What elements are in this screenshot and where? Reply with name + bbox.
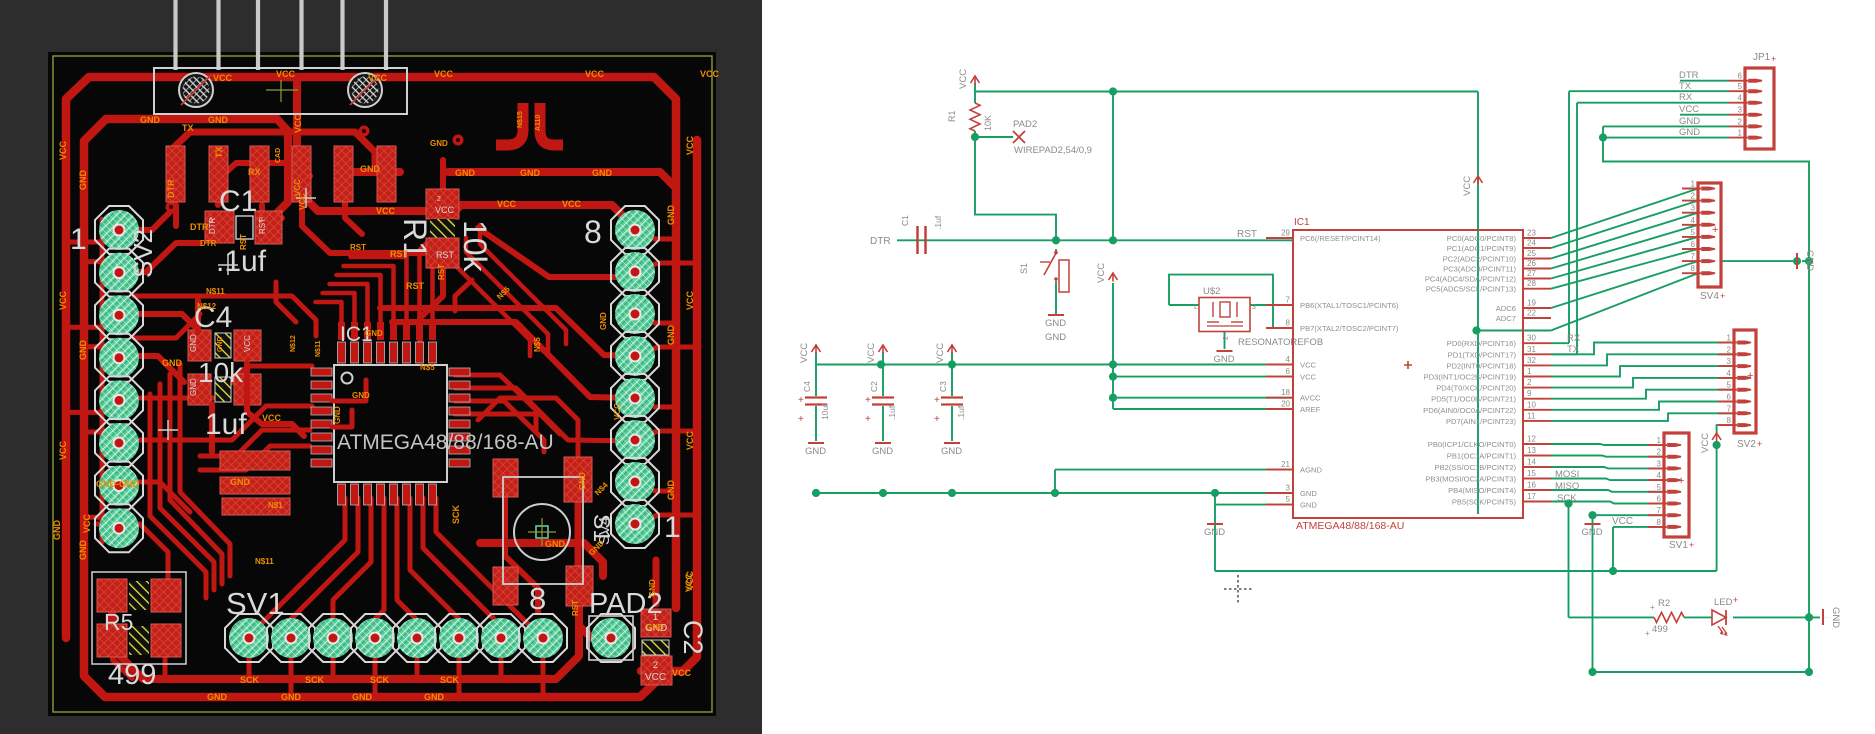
- svg-text:SCK: SCK: [305, 675, 325, 685]
- svg-text:PD1(TXD/PCINT17): PD1(TXD/PCINT17): [1448, 350, 1517, 359]
- svg-text:12: 12: [1527, 435, 1536, 444]
- svg-text:6: 6: [1286, 367, 1291, 376]
- svg-text:4: 4: [1286, 355, 1291, 364]
- svg-text:GND: GND: [1045, 332, 1066, 343]
- svg-text:+: +: [1678, 475, 1684, 487]
- svg-text:DTR: DTR: [166, 179, 176, 198]
- svg-text:GND: GND: [805, 446, 826, 457]
- svg-text:PD5(T1/OC0B/PCINT21): PD5(T1/OC0B/PCINT21): [1431, 395, 1516, 404]
- svg-text:C3: C3: [938, 381, 948, 392]
- svg-text:PB0(ICP1/CLKO/PCINT0): PB0(ICP1/CLKO/PCINT0): [1428, 440, 1517, 449]
- svg-text:N$11: N$11: [315, 341, 322, 357]
- svg-text:PC3(ADC3/PCINT11): PC3(ADC3/PCINT11): [1443, 265, 1516, 274]
- svg-text:A110: A110: [535, 115, 542, 131]
- svg-text:9: 9: [1527, 389, 1532, 398]
- svg-text:24: 24: [1527, 239, 1536, 248]
- svg-text:GND: GND: [599, 312, 608, 330]
- svg-text:GND: GND: [455, 168, 476, 178]
- svg-text:VCC: VCC: [1096, 263, 1107, 283]
- svg-text:RST: RST: [239, 234, 248, 250]
- svg-text:GND: GND: [941, 446, 962, 457]
- svg-text:5: 5: [1738, 82, 1743, 91]
- svg-text:23: 23: [1527, 229, 1536, 238]
- svg-text:GND: GND: [1300, 489, 1317, 498]
- svg-text:GND: GND: [140, 115, 161, 125]
- svg-text:SV2: SV2: [128, 229, 158, 278]
- svg-text:PB2(SS/OC1B/PCINT2): PB2(SS/OC1B/PCINT2): [1435, 463, 1517, 472]
- svg-text:+: +: [934, 395, 940, 406]
- svg-text:VCC: VCC: [82, 513, 92, 533]
- svg-text:28: 28: [1527, 279, 1536, 288]
- svg-text:VCC: VCC: [685, 135, 695, 155]
- svg-text:TX: TX: [1567, 344, 1580, 355]
- svg-text:VCC: VCC: [672, 668, 692, 678]
- svg-text:29: 29: [1281, 229, 1290, 238]
- svg-text:15: 15: [1527, 469, 1536, 478]
- svg-text:+: +: [1720, 291, 1725, 301]
- svg-text:PB3(MOSI/OC2A/PCINT3): PB3(MOSI/OC2A/PCINT3): [1425, 475, 1516, 484]
- svg-text:7: 7: [1727, 404, 1732, 413]
- svg-text:.1uf: .1uf: [956, 405, 966, 420]
- svg-text:10: 10: [1527, 400, 1536, 409]
- svg-text:R1: R1: [947, 110, 957, 122]
- svg-text:11: 11: [1527, 411, 1536, 420]
- svg-text:RST: RST: [350, 243, 366, 252]
- svg-text:31: 31: [1527, 345, 1536, 354]
- svg-text:VCC: VCC: [243, 335, 252, 352]
- svg-text:CAD: CAD: [275, 148, 282, 163]
- svg-text:+: +: [1757, 439, 1762, 449]
- svg-text:GND: GND: [78, 540, 88, 561]
- svg-text:AVCC: AVCC: [1300, 394, 1321, 403]
- svg-text:VCC: VCC: [958, 69, 969, 89]
- svg-text:TX: TX: [1679, 81, 1692, 92]
- svg-text:3: 3: [1657, 459, 1662, 468]
- svg-text:8: 8: [1727, 416, 1732, 425]
- svg-text:6: 6: [1738, 72, 1743, 81]
- svg-text:1: 1: [70, 223, 87, 256]
- svg-text:L: L: [1194, 304, 1198, 311]
- svg-text:+: +: [1712, 224, 1718, 236]
- svg-text:25: 25: [1527, 249, 1536, 258]
- svg-text:VCC: VCC: [58, 440, 68, 460]
- svg-text:GND: GND: [666, 205, 676, 226]
- svg-text:10k: 10k: [457, 220, 493, 273]
- svg-text:SCK: SCK: [240, 675, 260, 685]
- svg-text:5: 5: [1727, 381, 1732, 390]
- svg-text:26: 26: [1527, 259, 1536, 268]
- svg-text:2: 2: [1527, 378, 1532, 387]
- svg-text:5: 5: [1286, 495, 1291, 504]
- svg-text:GND: GND: [230, 477, 251, 487]
- svg-text:VCC: VCC: [685, 290, 695, 310]
- svg-text:RX: RX: [248, 167, 261, 177]
- svg-text:21: 21: [1281, 460, 1290, 469]
- svg-text:SCK: SCK: [440, 675, 460, 685]
- svg-text:VCC: VCC: [434, 69, 454, 79]
- svg-text:N$11: N$11: [255, 557, 274, 566]
- svg-text:N$12: N$12: [197, 302, 217, 311]
- svg-text:R2: R2: [1658, 598, 1670, 609]
- svg-text:GND: GND: [281, 692, 302, 702]
- svg-text:RST: RST: [1237, 229, 1257, 240]
- svg-text:VCC: VCC: [613, 403, 622, 420]
- svg-text:GND: GND: [217, 336, 224, 352]
- svg-text:R5: R5: [104, 609, 133, 635]
- svg-text:SV4: SV4: [1700, 291, 1719, 302]
- svg-text:3: 3: [1286, 484, 1291, 493]
- svg-text:+: +: [1645, 629, 1650, 638]
- svg-text:SV1: SV1: [226, 586, 285, 621]
- svg-text:C1: C1: [900, 215, 910, 226]
- svg-text:VCC: VCC: [58, 140, 68, 160]
- svg-text:18: 18: [1281, 388, 1290, 397]
- svg-text:20: 20: [1281, 400, 1290, 409]
- svg-text:N$11: N$11: [206, 287, 225, 296]
- svg-text:GND: GND: [1582, 527, 1603, 538]
- svg-text:+: +: [798, 395, 804, 406]
- svg-text:GND: GND: [648, 579, 657, 597]
- svg-text:GND: GND: [333, 406, 342, 424]
- svg-text:7: 7: [1691, 252, 1696, 261]
- svg-text:VCC: VCC: [866, 343, 877, 363]
- svg-text:ATMEGA48/88/168-AU: ATMEGA48/88/168-AU: [337, 431, 554, 454]
- svg-text:MISO: MISO: [1555, 481, 1579, 492]
- svg-text:C2: C2: [869, 381, 879, 392]
- svg-text:VCC: VCC: [1462, 176, 1473, 196]
- svg-text:RST: RST: [390, 249, 409, 259]
- svg-text:VCC: VCC: [1300, 373, 1317, 382]
- svg-text:DTR: DTR: [870, 236, 891, 247]
- svg-text:1: 1: [1527, 367, 1532, 376]
- svg-text:VCC: VCC: [368, 73, 388, 83]
- svg-text:499: 499: [108, 659, 156, 691]
- svg-text:ADC7: ADC7: [1496, 314, 1516, 323]
- svg-text:5: 5: [1657, 483, 1662, 492]
- svg-text:VCC: VCC: [685, 430, 695, 450]
- svg-text:VCC: VCC: [1612, 516, 1633, 527]
- svg-text:GND: GND: [189, 334, 198, 352]
- svg-text:PD3(INT1/OC2B/PCINT19): PD3(INT1/OC2B/PCINT19): [1424, 373, 1517, 382]
- svg-text:7: 7: [1657, 506, 1662, 515]
- svg-text:RST: RST: [571, 600, 580, 616]
- svg-text:C4: C4: [802, 381, 812, 392]
- svg-text:GND: GND: [208, 115, 229, 125]
- svg-text:PC0(ADC0/PCINT8): PC0(ADC0/PCINT8): [1447, 234, 1517, 243]
- svg-text:ADC6: ADC6: [1496, 304, 1516, 313]
- svg-text:VCC: VCC: [293, 113, 303, 133]
- svg-text:VCC: VCC: [58, 290, 68, 310]
- svg-text:1: 1: [1727, 334, 1732, 343]
- svg-text:N$12: N$12: [290, 335, 297, 352]
- svg-text:PB5(SCK/PCINT5): PB5(SCK/PCINT5): [1452, 498, 1517, 507]
- svg-text:VCC: VCC: [562, 199, 582, 209]
- svg-text:22: 22: [1527, 309, 1536, 318]
- svg-text:2: 2: [1223, 336, 1230, 340]
- svg-text:GND: GND: [666, 480, 676, 501]
- svg-text:VCC: VCC: [293, 179, 302, 196]
- svg-text:GND: GND: [365, 329, 383, 338]
- svg-text:N$5: N$5: [420, 363, 435, 372]
- svg-text:TX: TX: [214, 146, 224, 158]
- svg-text:IC1: IC1: [1294, 217, 1310, 228]
- svg-text:SV1: SV1: [1669, 540, 1688, 551]
- svg-text:2: 2: [437, 196, 441, 203]
- svg-text:10k: 10k: [198, 357, 244, 388]
- svg-text:4: 4: [1727, 369, 1732, 378]
- svg-text:RST: RST: [436, 250, 455, 260]
- svg-text:VCC: VCC: [799, 343, 810, 363]
- svg-text:17: 17: [1527, 492, 1536, 501]
- svg-text:3: 3: [1727, 357, 1732, 366]
- svg-text:RST: RST: [406, 281, 425, 291]
- svg-text:10K: 10K: [983, 115, 993, 131]
- svg-text:VCC: VCC: [276, 69, 296, 79]
- svg-text:GND: GND: [646, 623, 664, 632]
- svg-text:PD4(T0/XCK/PCINT20): PD4(T0/XCK/PCINT20): [1436, 384, 1516, 393]
- svg-text:6: 6: [1691, 240, 1696, 249]
- svg-text:VCC: VCC: [1679, 104, 1699, 115]
- svg-text:27: 27: [1527, 269, 1536, 278]
- svg-text:AREF: AREF: [1300, 405, 1321, 414]
- svg-text:VCC: VCC: [213, 73, 233, 83]
- svg-text:RX: RX: [1567, 333, 1581, 344]
- svg-text:+: +: [1771, 54, 1776, 64]
- svg-text:+: +: [865, 395, 871, 406]
- svg-text:GND: GND: [578, 472, 587, 490]
- svg-text:+: +: [1689, 540, 1694, 550]
- svg-text:PD6(AIN0/OC0A/PCINT22): PD6(AIN0/OC0A/PCINT22): [1423, 406, 1516, 415]
- svg-text:PD2(INT0/PCINT18): PD2(INT0/PCINT18): [1446, 361, 1516, 370]
- svg-text:6: 6: [1657, 495, 1662, 504]
- svg-text:PAD2: PAD2: [1013, 119, 1037, 130]
- svg-text:C1: C1: [219, 185, 257, 218]
- svg-text:PB4(MISO/PCINT4): PB4(MISO/PCINT4): [1448, 486, 1516, 495]
- svg-text:.1uf: .1uf: [933, 215, 943, 230]
- svg-text:1: 1: [1691, 180, 1696, 189]
- svg-text:+: +: [798, 414, 804, 425]
- svg-text:PD0(RXD/PCINT16): PD0(RXD/PCINT16): [1447, 339, 1517, 348]
- svg-text:S1: S1: [1019, 263, 1029, 274]
- svg-text:2: 2: [1691, 192, 1696, 201]
- svg-text:GND: GND: [520, 168, 541, 178]
- svg-text:VCC: VCC: [935, 343, 946, 363]
- svg-text:WIREPAD2,54/0,9: WIREPAD2,54/0,9: [1014, 145, 1092, 156]
- svg-text:GND: GND: [352, 692, 373, 702]
- svg-text:VCC: VCC: [684, 572, 694, 592]
- svg-text:2: 2: [1738, 117, 1743, 126]
- svg-text:GND: GND: [360, 164, 381, 174]
- svg-text:RST: RST: [437, 264, 446, 280]
- svg-text:19: 19: [1527, 299, 1536, 308]
- svg-text:GND: GND: [666, 325, 676, 346]
- svg-text:VCC: VCC: [1300, 361, 1317, 370]
- svg-text:SCK: SCK: [1557, 493, 1577, 504]
- svg-text:VCC: VCC: [497, 199, 517, 209]
- svg-text:MOSI: MOSI: [1555, 469, 1579, 480]
- svg-text:1uf: 1uf: [205, 408, 247, 441]
- svg-text:JP1: JP1: [1753, 52, 1771, 63]
- svg-text:GND: GND: [78, 340, 88, 361]
- svg-text:PB6(XTAL1/TOSC1/PCINT6): PB6(XTAL1/TOSC1/PCINT6): [1300, 301, 1399, 310]
- svg-text:+: +: [865, 414, 871, 425]
- svg-text:16: 16: [1527, 481, 1536, 490]
- svg-text:6: 6: [1727, 393, 1732, 402]
- svg-text:TX: TX: [182, 123, 194, 133]
- svg-text:VCC: VCC: [376, 206, 396, 216]
- svg-text:GND: GND: [1679, 127, 1700, 138]
- svg-text:N$15: N$15: [517, 111, 524, 128]
- svg-text:1: 1: [209, 217, 213, 224]
- svg-text:GND: GND: [1804, 250, 1815, 271]
- svg-text:4: 4: [1691, 216, 1696, 225]
- svg-text:GND: GND: [424, 692, 445, 702]
- svg-text:PB1(OC1A/PCINT1): PB1(OC1A/PCINT1): [1447, 452, 1517, 461]
- svg-text:VCC: VCC: [645, 672, 666, 683]
- svg-text:8: 8: [529, 581, 546, 616]
- svg-text:10uf: 10uf: [820, 403, 830, 420]
- svg-text:VCC: VCC: [435, 205, 455, 215]
- svg-text:LED: LED: [1714, 597, 1733, 608]
- svg-text:7: 7: [1286, 296, 1291, 305]
- svg-text:RX: RX: [1679, 92, 1693, 103]
- svg-text:32: 32: [1527, 356, 1536, 365]
- svg-text:GND: GND: [352, 391, 370, 400]
- svg-text:8: 8: [1691, 264, 1696, 273]
- svg-text:SCK: SCK: [451, 504, 461, 524]
- svg-text:PC2(ADC2/PCINT10): PC2(ADC2/PCINT10): [1443, 255, 1517, 264]
- svg-text:4: 4: [1738, 94, 1743, 103]
- svg-text:8: 8: [1286, 319, 1291, 328]
- svg-text:1: 1: [1738, 129, 1743, 138]
- svg-text:PB7(XTAL2/TOSC2/PCINT7): PB7(XTAL2/TOSC2/PCINT7): [1300, 324, 1399, 333]
- svg-text:PC5(ADC5/SCL/PCINT13): PC5(ADC5/SCL/PCINT13): [1426, 285, 1517, 294]
- svg-text:AGND: AGND: [1300, 466, 1322, 475]
- svg-text:3: 3: [1252, 304, 1256, 311]
- svg-text:GND: GND: [592, 168, 613, 178]
- svg-text:GND: GND: [1204, 527, 1225, 538]
- svg-text:GND: GND: [1300, 501, 1317, 510]
- svg-text:GND: GND: [545, 539, 566, 549]
- svg-text:14: 14: [1527, 458, 1536, 467]
- svg-text:+: +: [1650, 603, 1655, 612]
- svg-text:GND: GND: [78, 170, 88, 191]
- svg-text:+: +: [1733, 595, 1738, 605]
- svg-text:N$5: N$5: [533, 337, 542, 352]
- svg-text:2: 2: [259, 217, 263, 224]
- svg-text:1: 1: [1657, 436, 1662, 445]
- svg-text:1: 1: [664, 511, 681, 544]
- svg-text:3: 3: [1738, 106, 1743, 115]
- svg-text:GND: GND: [1830, 607, 1841, 628]
- svg-text:.1uf: .1uf: [887, 405, 897, 420]
- svg-text:4: 4: [1657, 471, 1662, 480]
- svg-text:SCK: SCK: [370, 675, 390, 685]
- svg-text:GND: GND: [207, 692, 228, 702]
- svg-text:GND-GND: GND-GND: [96, 479, 139, 489]
- svg-text:U$2: U$2: [1203, 286, 1220, 297]
- svg-text:GND: GND: [1679, 116, 1700, 127]
- svg-text:PD7(AIN1/PCINT23): PD7(AIN1/PCINT23): [1446, 417, 1517, 426]
- svg-text:GND: GND: [162, 358, 183, 368]
- svg-text:VCC: VCC: [1700, 433, 1711, 453]
- svg-text:GND: GND: [52, 520, 62, 541]
- svg-text:3: 3: [1691, 204, 1696, 213]
- svg-text:GND: GND: [1045, 318, 1066, 329]
- svg-text:2: 2: [653, 660, 658, 670]
- svg-text:13: 13: [1527, 446, 1536, 455]
- svg-text:5: 5: [1691, 228, 1696, 237]
- svg-text:GND: GND: [1214, 354, 1235, 365]
- svg-text:30: 30: [1527, 334, 1536, 343]
- svg-text:ATMEGA48/88/168-AU: ATMEGA48/88/168-AU: [1296, 520, 1404, 532]
- svg-text:GND: GND: [189, 378, 198, 396]
- svg-text:PC4(ADC4/SDA/PCINT12): PC4(ADC4/SDA/PCINT12): [1425, 275, 1517, 284]
- svg-text:PC6(/RESET/PCINT14): PC6(/RESET/PCINT14): [1300, 234, 1381, 243]
- svg-text:8: 8: [584, 214, 602, 250]
- svg-text:2: 2: [1657, 448, 1662, 457]
- svg-text:C2: C2: [678, 620, 708, 655]
- svg-text:SV2: SV2: [1737, 439, 1756, 450]
- svg-text:499: 499: [1652, 624, 1668, 635]
- svg-text:2: 2: [1727, 345, 1732, 354]
- svg-text:+: +: [1747, 370, 1753, 382]
- svg-text:DTR: DTR: [190, 222, 209, 232]
- svg-text:VCC: VCC: [700, 69, 720, 79]
- svg-text:RESONATOREFOB: RESONATOREFOB: [1238, 337, 1323, 348]
- svg-text:+: +: [934, 414, 940, 425]
- svg-text:N$1: N$1: [268, 501, 283, 510]
- svg-text:8: 8: [1657, 518, 1662, 527]
- svg-text:GND: GND: [872, 446, 893, 457]
- svg-text:GND: GND: [430, 139, 448, 148]
- svg-text:DTR: DTR: [200, 239, 217, 248]
- svg-text:VCC: VCC: [585, 69, 605, 79]
- svg-text:VCC: VCC: [262, 413, 282, 423]
- svg-text:PC1(ADC1/PCINT9): PC1(ADC1/PCINT9): [1447, 244, 1517, 253]
- svg-text:DTR: DTR: [1679, 70, 1699, 81]
